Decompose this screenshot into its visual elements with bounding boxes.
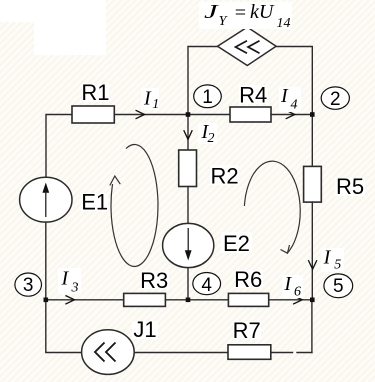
current arrow I1 bbox=[136, 110, 145, 119]
source E2 bbox=[163, 223, 214, 267]
svg-text:3: 3 bbox=[71, 281, 79, 296]
mesh loop arrow right bbox=[244, 161, 300, 253]
svg-text:4: 4 bbox=[201, 275, 212, 296]
label E1 bbox=[81, 189, 108, 214]
wire top-left horizontal to R1 bbox=[46, 115, 72, 178]
label I3 bbox=[58, 268, 81, 296]
mesh loop arrow left bbox=[110, 144, 158, 266]
label R5 bbox=[335, 174, 365, 199]
wire node3 to R3 bbox=[46, 299, 124, 301]
resistor R4 bbox=[230, 107, 271, 122]
wire J1 to R7 bbox=[134, 352, 228, 354]
node circle 2 bbox=[321, 87, 349, 110]
svg-text:kU: kU bbox=[250, 1, 275, 23]
svg-text:5: 5 bbox=[333, 276, 344, 297]
svg-text:I: I bbox=[280, 85, 289, 107]
svg-text:J1: J1 bbox=[133, 317, 156, 342]
svg-text:1: 1 bbox=[202, 87, 213, 108]
svg-text:14: 14 bbox=[277, 16, 291, 31]
current arrow I5 bbox=[308, 260, 317, 269]
junction node 4 bbox=[186, 298, 191, 303]
wire R6 to node5 bbox=[269, 299, 313, 301]
resistor R6 bbox=[228, 293, 268, 306]
node circle 4 bbox=[193, 273, 221, 296]
junction node 5 bbox=[310, 298, 315, 303]
label R3 bbox=[140, 268, 169, 293]
svg-text:R1: R1 bbox=[81, 80, 109, 105]
wire diamond to node 2 bbox=[276, 47, 312, 115]
wire node4 to R6 bbox=[188, 299, 228, 301]
current source J1 bbox=[82, 330, 135, 375]
svg-text:E2: E2 bbox=[223, 231, 250, 256]
wire R5 down to node5 bbox=[311, 202, 313, 300]
label E2 bbox=[221, 231, 252, 256]
svg-text:=: = bbox=[234, 2, 248, 24]
svg-text:2: 2 bbox=[330, 89, 341, 110]
svg-text:R4: R4 bbox=[239, 83, 267, 108]
junction node 2 bbox=[310, 112, 315, 117]
label J1 bbox=[132, 317, 158, 342]
label I5 bbox=[321, 247, 344, 273]
wire R4 to node 2 bbox=[271, 114, 312, 116]
svg-text:I: I bbox=[283, 273, 292, 295]
svg-text:5: 5 bbox=[334, 258, 341, 273]
label I6 bbox=[282, 273, 303, 299]
resistor R3 bbox=[124, 293, 166, 306]
resistor R7 bbox=[228, 345, 271, 360]
label I1 bbox=[141, 88, 159, 112]
svg-text:R3: R3 bbox=[140, 268, 168, 293]
E1 arrow (up) bbox=[42, 183, 49, 218]
dependent source JY diamond bbox=[218, 27, 277, 65]
label R2 bbox=[210, 163, 239, 188]
node circle 3 bbox=[15, 273, 42, 296]
E2 arrow (down) bbox=[185, 228, 192, 261]
wire R1 to node 1 bbox=[114, 114, 188, 116]
current arrow I2 bbox=[184, 130, 193, 139]
wire node1 up to diamond bbox=[188, 47, 218, 115]
wire node2 down to R5 bbox=[311, 115, 313, 167]
wire node1 to R4 bbox=[188, 114, 230, 116]
current arrow I6 bbox=[293, 296, 302, 305]
current arrow I3 bbox=[65, 296, 74, 305]
wire node3 junction down to bottom row bbox=[46, 300, 82, 353]
wire node1 down to R2 bbox=[187, 115, 189, 151]
svg-text:6: 6 bbox=[294, 284, 301, 299]
wire E1 down to node3 junction bbox=[45, 222, 47, 300]
wire E2 to node 4 bbox=[187, 268, 189, 300]
node circle 5 bbox=[324, 274, 353, 298]
svg-text:R5: R5 bbox=[336, 174, 364, 199]
wire R7 to right column (small gap) bbox=[271, 352, 293, 354]
wire right column bottom up to node5 bbox=[311, 300, 313, 353]
J1 chevrons bbox=[95, 343, 116, 362]
label R7 bbox=[233, 318, 261, 343]
wire R2 to E2 bbox=[187, 187, 189, 224]
svg-text:4: 4 bbox=[291, 98, 298, 113]
source E1 bbox=[20, 177, 72, 222]
current arrow I4 bbox=[286, 110, 295, 119]
junction node 3 bbox=[44, 298, 49, 303]
svg-text:I: I bbox=[143, 88, 152, 110]
svg-text:2: 2 bbox=[208, 131, 215, 146]
label I2 bbox=[198, 121, 217, 146]
resistor R5 bbox=[304, 166, 322, 202]
junction node 1 bbox=[186, 112, 191, 117]
svg-text:E1: E1 bbox=[81, 189, 108, 214]
label R6 bbox=[234, 267, 263, 292]
resistor R2 bbox=[179, 150, 197, 187]
svg-text:R2: R2 bbox=[211, 163, 239, 188]
node circle 1 bbox=[194, 85, 222, 108]
wire R3 to node4 bbox=[165, 299, 188, 301]
svg-text:J: J bbox=[204, 1, 219, 23]
svg-text:R7: R7 bbox=[233, 318, 261, 343]
resistor R1 bbox=[72, 106, 114, 123]
JY diamond chevrons bbox=[236, 41, 260, 53]
svg-text:I: I bbox=[323, 247, 332, 269]
label R4 bbox=[239, 83, 268, 108]
label I4 bbox=[279, 85, 301, 113]
svg-text:1: 1 bbox=[152, 97, 159, 112]
label R1 bbox=[81, 80, 109, 105]
title JY = kU14 bbox=[199, 1, 292, 31]
svg-text:3: 3 bbox=[23, 275, 34, 296]
svg-text:I: I bbox=[61, 268, 70, 290]
svg-text:R6: R6 bbox=[234, 267, 262, 292]
